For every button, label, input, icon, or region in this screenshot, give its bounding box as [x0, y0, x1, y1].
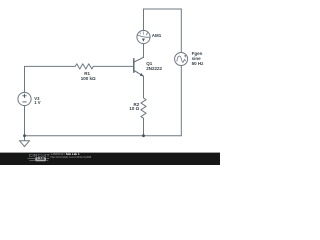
wire left column lower (V3 minus to bottom rail)	[24, 106, 26, 136]
wire AM1 bottom to collector	[143, 44, 145, 58]
wire R2 bottom to bottom rail	[143, 118, 145, 135]
wire base (left node to R1)	[25, 65, 76, 67]
value 10 Ohm	[129, 107, 139, 112]
minus sign	[22, 101, 26, 103]
function generator FGEN	[175, 53, 188, 66]
label AM1	[152, 34, 162, 39]
transistor Q1	[134, 57, 144, 76]
wire R1 to Q1 base	[93, 65, 133, 67]
wire AM1 top (top rail to ammeter)	[143, 9, 145, 30]
ammeter needle	[142, 39, 145, 42]
CircuitLab logo pins	[28, 159, 50, 161]
footer bar	[0, 153, 220, 165]
label R2	[134, 103, 140, 108]
label Fgen	[192, 52, 203, 57]
ground	[20, 136, 30, 147]
footer url line	[50, 157, 91, 160]
logo LAB	[37, 158, 44, 162]
value sine	[192, 57, 201, 62]
CircuitLab logo LAB box	[35, 157, 46, 161]
wire right rail lower (Fgen bottom to bottom rail)	[180, 65, 182, 135]
plus sign	[22, 94, 26, 102]
junction R2/bottom rail	[142, 134, 145, 137]
footer user line	[51, 153, 80, 156]
logo CIRCUIT	[29, 154, 50, 159]
value 2N2222	[146, 67, 162, 72]
label V3	[34, 97, 39, 101]
value 50 Hz	[192, 62, 204, 67]
voltage source V3	[18, 92, 31, 105]
emitter arrow	[140, 73, 144, 76]
wire right rail upper (Fgen top to top rail)	[180, 9, 182, 53]
wire top rail	[144, 8, 182, 10]
value 1 V	[34, 101, 40, 105]
wire emitter to R2	[143, 76, 145, 98]
value 100 kOhm	[81, 77, 96, 82]
label Q1	[146, 62, 152, 67]
junction left (V3/ground/bottom rail)	[23, 134, 26, 137]
ammeter AM1	[137, 30, 150, 43]
label R1	[84, 72, 90, 77]
resistor R1	[75, 64, 93, 69]
wire left column upper (node A to V3 plus)	[24, 66, 26, 92]
resistor R2	[141, 98, 146, 118]
wire bottom rail	[25, 135, 182, 137]
